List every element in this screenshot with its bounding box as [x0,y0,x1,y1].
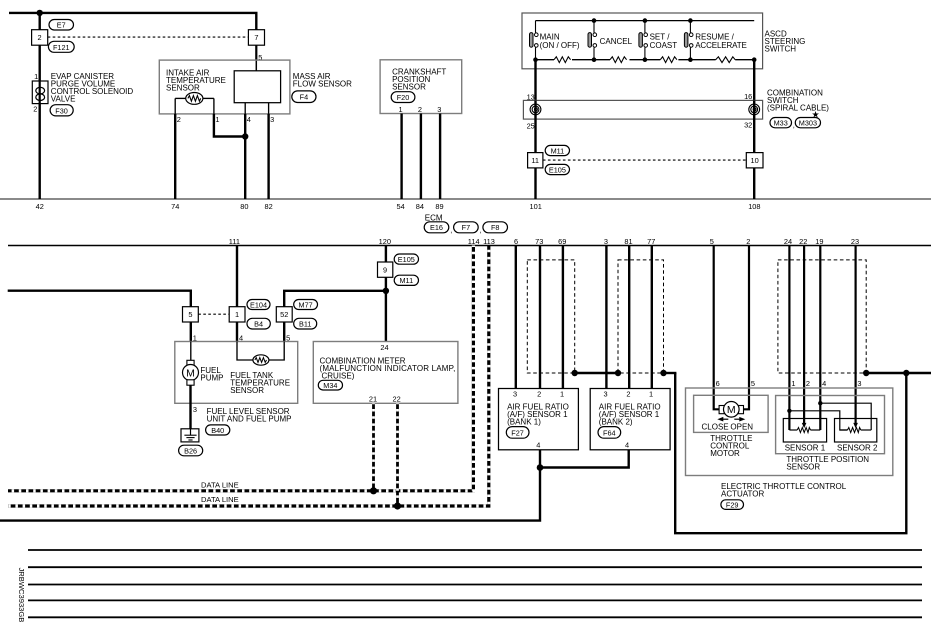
svg-text:4: 4 [536,441,540,450]
svg-text:(ON / OFF): (ON / OFF) [540,41,580,50]
svg-text:101: 101 [530,202,542,211]
resistor in ASCD rail 3 [660,57,677,63]
ECM bus line (upper) [0,198,931,200]
label SENSOR 1 / SENSOR 2 [785,444,878,453]
wire: ECM 5 to throttle motor pin 6 [714,246,719,410]
svg-text:1: 1 [399,105,403,114]
A/F bank2 pin labels 3 2 1 [604,389,654,398]
connector E104 label [247,300,270,310]
svg-text:F20: F20 [397,93,410,102]
svg-text:3: 3 [437,105,441,114]
bottom separator line 3 [28,584,922,586]
pin 24 label meter [380,343,388,352]
switch CANCEL [588,21,633,60]
svg-text:32: 32 [744,120,752,129]
wire through spiral cable right [753,100,755,152]
bottom separator line 5 [28,616,922,618]
connector E105 label at 9 [394,254,418,264]
svg-text:M34: M34 [323,381,337,390]
pin labels 2 1 4 3 under MAF box [177,115,275,124]
connector B11 label [294,318,317,329]
pin 3 label fuel pump [193,405,197,414]
pin 5 label MAF [258,53,262,62]
electric throttle control actuator box [686,388,893,476]
svg-text:6: 6 [514,237,518,246]
label ELECTRIC THROTTLE CONTROL ACTUATOR [721,482,847,499]
sensor1 resistor [789,428,820,433]
shielded data wire: meter pin 21 to data line 1 [372,403,375,491]
svg-text:(SPIRAL CABLE): (SPIRAL CABLE) [767,104,829,113]
connector E7 label [49,20,74,31]
wire: IAT right lead down inside box [213,98,215,114]
svg-text:10: 10 [750,156,758,165]
svg-text:3: 3 [857,379,861,388]
junction node pin4/pin1 [242,133,248,139]
svg-text:19: 19 [815,237,823,246]
svg-text:120: 120 [379,237,391,246]
wire: bank1 pin 4 down [539,450,541,468]
shielded data wire: ECM 113 down and data line 2 [8,246,489,507]
svg-text:2: 2 [38,33,42,42]
svg-text:52: 52 [280,310,288,319]
spiral symbol left [530,104,541,115]
svg-text:1: 1 [34,72,38,81]
wire: shield drain jumper 2 [664,372,677,374]
A/F bank1 pin 4 label [536,441,540,450]
svg-text:2: 2 [626,389,630,398]
svg-text:M303: M303 [799,119,817,128]
resistor in ASCD rail 1 [554,57,571,63]
fuel pump motor symbol [183,342,199,386]
pin 32 label [744,120,752,129]
svg-text:2: 2 [806,379,810,388]
svg-text:E104: E104 [250,300,267,309]
svg-text:,: , [450,226,452,235]
svg-text:PUMP: PUMP [200,373,223,382]
svg-text:F64: F64 [603,428,616,437]
svg-text:5: 5 [710,237,714,246]
wire: TPS pin1 branch to sensor2 low side [789,411,847,430]
connector 10 [746,153,763,168]
svg-text:B4: B4 [254,320,263,329]
svg-text:2: 2 [537,389,541,398]
svg-text:2: 2 [418,105,422,114]
svg-text:22: 22 [392,395,400,404]
svg-text:F27: F27 [511,428,524,437]
wire: connector 7 to mass air flow sensor pin 5 [255,45,257,71]
switch SET / COAST [639,21,677,60]
shielded data wire: meter pin 22 to data line 2 [396,403,399,506]
svg-text:111: 111 [229,237,240,246]
label AIR FUEL RATIO (A/F) SENSOR 1 (BANK 1) [507,403,569,427]
combination switch (spiral cable) box [523,100,762,119]
connector F64 label [598,427,621,439]
svg-text:VALVE: VALVE [51,95,76,104]
wire: connector 10 to ECM 108 [753,168,755,199]
svg-text:SENSOR: SENSOR [230,386,264,395]
ground symbol B26 [181,429,199,442]
crankshaft position sensor box [380,60,462,114]
svg-text:SENSOR: SENSOR [786,463,820,472]
connector 9 (E105/M11) [378,262,393,277]
wire: ECM 19 to TPS pin 4 [819,246,821,431]
shield dashed box around 24/22/19/23 [778,260,866,373]
air fuel ratio sensor bank1 box [499,389,579,450]
label CRANKSHAFT POSITION SENSOR [392,68,446,92]
sensor2 resistor [840,428,871,433]
bottom separator line 4 [28,599,922,601]
svg-text:MOTOR: MOTOR [710,449,740,458]
svg-text:DATA LINE: DATA LINE [201,495,239,504]
junction nodes on ASCD rails [533,18,756,62]
svg-text:CANCEL: CANCEL [600,37,633,46]
sensor 2 box [835,419,877,443]
spiral symbol right [749,104,760,115]
svg-text:1: 1 [235,310,239,319]
wire: ECM 2 to throttle motor pin 5 [743,246,749,410]
wire: connector 9 down to meter pin 24 [385,277,387,341]
svg-text:24: 24 [380,343,388,352]
wire: EVAP branch down from feed [39,13,41,81]
wire through spiral cable left [534,100,536,152]
connector M33 label [770,118,792,128]
sensor1 wiper arrow [802,423,807,428]
solenoid coil EVAP valve [32,81,48,104]
svg-text:SENSOR: SENSOR [392,83,426,92]
wire: shield drain to right edge [866,372,931,374]
svg-text:22: 22 [799,237,807,246]
wire: MAF pin2 to ECM pin 74 [174,114,176,199]
CKP pin labels 1 2 3 [399,105,442,114]
wire: IAT left lead to pin 2 [174,98,176,114]
wire: connector 52 to fuel tank temp pin 5 [283,322,285,342]
pin 101 label [530,202,542,211]
junction node on feed bus [37,10,43,16]
svg-text:21: 21 [369,395,377,404]
svg-text:24: 24 [784,237,792,246]
A/F bank2 pin 4 label [625,441,629,450]
svg-text:E16: E16 [430,223,443,232]
wire: ECM 23 to TPS pin 3 wiper [854,246,856,424]
throttle control motor box [694,395,769,432]
dashed harness link 5-1 [198,313,229,315]
label MASS AIR FLOW SENSOR [293,72,352,89]
label EVAP CANISTER PURGE VOLUME CONTROL SOLENOID VALVE [51,72,134,104]
star mark [812,110,820,120]
wire: left stub to fuel pump connector 5 [8,291,191,307]
svg-text:DATA LINE: DATA LINE [201,480,239,489]
svg-text:M11: M11 [399,276,413,285]
connector 2 (E7/F121) [32,30,48,46]
label THROTTLE POSITION SENSOR [786,455,869,472]
TPS pin labels 1 2 4 3 [791,379,861,388]
pin 80 label [240,202,248,211]
wire: ASCD right to spiral cable pin 16 [753,60,755,101]
wire: ECM 111 to connector 1 [236,246,238,307]
svg-text:ACTUATOR: ACTUATOR [721,490,764,499]
label DATA LINE 1 [201,480,239,489]
wire: top power feed bus [9,13,256,30]
svg-text:1: 1 [215,115,219,124]
pin 82 label [264,202,272,211]
svg-text:M77: M77 [298,300,312,309]
wire: pin4 inside box [244,103,246,114]
wire: CKP pin3 to ECM 89 [439,114,441,200]
pin 5 label motor [751,379,755,388]
svg-text:4: 4 [247,115,251,124]
dashed harness link 2-7 [48,36,249,38]
svg-text:COAST: COAST [650,41,678,50]
svg-text:1: 1 [649,389,653,398]
fuel tank thermistor symbol [237,342,284,366]
svg-text:25: 25 [527,121,535,130]
svg-text:6: 6 [716,379,720,388]
svg-text:81: 81 [624,237,632,246]
connector B26 label [179,445,203,456]
pin labels above lower ECM bus [229,237,859,246]
svg-text:3: 3 [604,389,608,398]
wire: ECM 3 to A/F bank2 pin 3 [605,246,607,389]
svg-text:4: 4 [822,379,826,388]
svg-text:SENSOR: SENSOR [166,83,200,92]
connector 1 [229,307,245,322]
label FUEL LEVEL SENSOR UNIT AND FUEL PUMP [207,407,292,424]
svg-text:F4: F4 [300,93,309,102]
svg-text:82: 82 [264,202,272,211]
pin 108 label [748,202,760,211]
bottom separator line 1 [28,549,922,551]
connector F20 label [391,92,415,103]
pin 42 label [36,202,44,211]
wire: ECM 81 to A/F bank2 pin 2 [628,246,630,389]
connector F121 label [48,41,74,52]
svg-text:42: 42 [36,202,44,211]
combination meter box [313,342,458,404]
pin 21 22 labels meter [369,395,401,404]
svg-text:,: , [793,120,795,129]
svg-text:84: 84 [416,202,424,211]
wire: shield drain jumper 1 [575,372,618,374]
wire: ECM 6 to A/F bank1 pin 3 [515,246,517,389]
svg-text:SENSOR 1: SENSOR 1 [785,444,826,453]
wire: ECM 69 to A/F bank1 pin 1 [562,246,564,389]
bottom separator line 2 [28,566,922,568]
sensor2 wiper arrow [853,423,858,428]
svg-text:E105: E105 [549,165,566,174]
connector B4 label [247,318,270,329]
wire: ECM 22 to TPS pin 2 wiper [803,246,805,424]
svg-text:3: 3 [604,237,608,246]
connector 5 [183,307,199,322]
wire: A/F heater feed to left edge [0,468,540,521]
pin 74 label [171,202,179,211]
shielded data wire: ECM 114 down and data line 1 [8,246,473,491]
wire: pin3 inside box [268,103,270,114]
connector 52 [276,307,292,322]
label FUEL TANK TEMPERATURE SENSOR [230,371,290,395]
connector M11 label at 9 [394,275,418,285]
wire: connector 1 to fuel tank temp pin 4 [236,322,238,342]
label CLOSE OPEN [702,423,754,432]
svg-text:113: 113 [483,237,495,246]
connector M77 label [294,300,318,310]
pin 6 label motor [716,379,720,388]
switch RESUME / ACCELERATE [684,21,747,60]
svg-text:F30: F30 [55,106,68,115]
connector F30 label [50,105,73,116]
svg-text:ACCELERATE: ACCELERATE [695,41,747,50]
ASCD steering switch box [522,13,763,69]
svg-text:FLOW SENSOR: FLOW SENSOR [293,80,352,89]
svg-text:CRUISE): CRUISE) [322,371,355,380]
connector M303 label [793,118,821,130]
A/F bank1 pin labels 3 2 1 [513,389,564,398]
shield dashed box around 81/77 [618,260,664,373]
resistor in ASCD rail 4 [716,57,736,63]
ECM bus line (lower) [8,245,931,247]
wire: ECM 77 to A/F bank2 pin 1 [651,246,653,389]
wire: TPS pin4 branch to sensor2 high side [820,403,871,430]
svg-text:77: 77 [647,237,655,246]
svg-text:4: 4 [625,441,629,450]
junction node pin22/data line 2 [394,502,401,509]
throttle motor symbol [719,402,743,418]
wire: EVAP valve to ECM pin 42 [39,104,41,199]
pin labels 1 4 5 fuel unit [193,333,291,342]
svg-text:F8: F8 [491,223,500,232]
svg-text:2: 2 [746,237,750,246]
wire: ECM 24 to TPS pin 1 [788,246,790,431]
connector 7 [248,30,264,46]
fuel level sensor unit box [175,342,298,404]
label COMBINATION SWITCH (SPIRAL CABLE) [767,89,829,113]
ground shield loop around throttle actuator [675,373,906,533]
svg-text:F121: F121 [53,43,70,52]
pin 1 label EVAP [34,72,38,81]
wire: ASCD left to spiral cable pin 13 [534,60,536,101]
connector F27 label [506,427,529,439]
svg-text:SENSOR 2: SENSOR 2 [837,444,878,453]
label THROTTLE CONTROL MOTOR [710,434,752,458]
svg-text:B26: B26 [184,446,197,455]
junction node below connector 9 [383,288,389,294]
svg-text:3: 3 [513,389,517,398]
label AIR FUEL RATIO (A/F) SENSOR 1 (BANK 2) [599,403,661,427]
svg-text:54: 54 [396,202,404,211]
svg-text:B11: B11 [299,320,311,329]
svg-text:M11: M11 [551,146,565,155]
wire: CKP pin1 to ECM 54 [400,114,402,200]
svg-text:(BANK 2): (BANK 2) [599,418,633,427]
svg-text:1: 1 [791,379,795,388]
wire: CKP pin2 to ECM 84 [420,114,422,200]
shield dashed box around 73/69 [527,260,574,373]
drawing number JRBWC3933GB [17,568,26,623]
svg-text:3: 3 [193,405,197,414]
label FUEL PUMP [200,366,223,383]
svg-text:M: M [186,367,195,379]
svg-text:108: 108 [748,202,760,211]
label DATA LINE 2 [201,495,239,504]
svg-text:F7: F7 [462,223,471,232]
svg-text:(BANK 1): (BANK 1) [507,418,541,427]
close/open arrows [717,417,745,422]
MAF inner element box [234,71,280,103]
svg-text:74: 74 [171,202,179,211]
resistor in ASCD rail 2 [610,57,627,63]
wire: connector 11 to ECM 101 [534,168,536,199]
svg-text:OPEN: OPEN [730,423,753,432]
connector M34 label [318,380,342,390]
svg-text:7: 7 [254,33,258,42]
wire: branch to fuel tank temp sensor connector 52 [284,291,386,307]
svg-text:M33: M33 [774,119,788,128]
connector F29 label [721,500,744,510]
wire: ECM 73 to A/F bank1 pin 2 [539,246,541,389]
mass air flow sensor outer box [159,60,290,114]
connector E105 label [545,164,569,174]
svg-text:73: 73 [535,237,543,246]
svg-text:E7: E7 [57,21,66,30]
wire: MAF pin1 elbow to sensor ground joint [214,114,245,137]
svg-text:1: 1 [560,389,564,398]
svg-text:JRBWC3933GB: JRBWC3933GB [17,568,26,623]
svg-text:,: , [480,226,482,235]
ASCD top rail wire [536,20,755,22]
svg-text:114: 114 [468,237,480,246]
connector F4 label [292,91,316,103]
svg-text:5: 5 [751,379,755,388]
svg-text:69: 69 [558,237,566,246]
wire: ECM 120 to connector 9 [385,246,387,263]
svg-text:SWITCH: SWITCH [765,45,797,54]
junction node TPS pin4 [818,401,822,405]
junction node A/F pin4 [537,464,544,471]
svg-text:11: 11 [531,156,539,165]
svg-text:E105: E105 [398,255,415,264]
svg-text:80: 80 [240,202,248,211]
label ASCD STEERING SWITCH [765,30,806,54]
connector M11 label [545,145,569,155]
sensor 1 box [783,419,826,443]
svg-text:UNIT AND FUEL PUMP: UNIT AND FUEL PUMP [207,415,292,424]
air fuel ratio sensor bank2 box [590,389,670,450]
label INTAKE AIR TEMPERATURE SENSOR [166,68,226,92]
pin 13 label [527,92,535,101]
svg-text:F29: F29 [726,500,739,509]
throttle position sensor box [776,396,885,454]
connector 11 (M11/E105) [528,153,543,168]
connector B40 label [206,425,230,435]
svg-text:89: 89 [435,202,443,211]
svg-text:16: 16 [744,92,752,101]
pin 54 84 89 labels [396,202,443,211]
svg-text:3: 3 [270,115,274,124]
svg-text:5: 5 [188,310,192,319]
ECM label with connectors E16, F7, F8 [424,214,507,235]
shield drain junction nodes [572,370,910,376]
junction node pin21/data line 1 [370,487,377,494]
wire: MAF pin3 to ECM pin 82 [267,114,269,199]
svg-text:B40: B40 [211,426,224,435]
svg-text:9: 9 [383,265,387,274]
pin 2 label EVAP [33,105,37,114]
pin 25 label [527,121,535,130]
dashed harness link 11-10 [543,159,746,161]
label COMBINATION METER (MALFUNCTION INDICATOR LAMP, CRUISE) [320,356,456,380]
pin 16 label [744,92,752,101]
wire: connector 5 to fuel pump pin 1 [190,322,192,342]
